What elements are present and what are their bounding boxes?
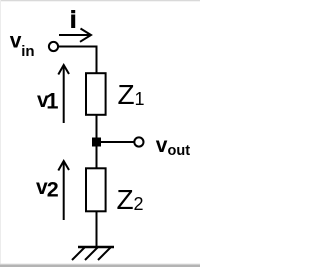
svg-text:v: v [156,134,168,157]
wire: vin terminal to top corner [58,46,97,48]
wire: node to vout terminal [97,141,135,143]
impedance Z1 (box) [86,73,106,115]
impedance Z2 (box) [86,168,106,211]
svg-text:1: 1 [135,89,145,109]
wire: node down to Z2 [96,146,98,168]
svg-text:1: 1 [46,89,58,114]
ground [78,246,114,248]
svg-text:2: 2 [47,178,59,202]
svg-text:out: out [168,143,191,159]
terminal vout (open circle) [134,137,143,146]
svg-text:in: in [21,43,34,60]
svg-text:Z: Z [117,184,134,215]
svg-text:2: 2 [134,194,144,214]
voltage arrow v1 (upward) [58,65,69,123]
svg-text:v: v [10,29,22,52]
wire: top corner down to Z1 [96,46,98,74]
svg-text:Z: Z [118,79,135,110]
voltage arrow v2 (upward) [58,161,69,220]
wire: Z2 down to ground [96,212,98,247]
wire: Z1 to node [96,116,98,143]
svg-text:i: i [70,7,76,33]
current arrow i (rightward) [59,29,91,42]
terminal vin (open circle) [49,42,58,51]
node junction (filled square) [92,138,101,147]
